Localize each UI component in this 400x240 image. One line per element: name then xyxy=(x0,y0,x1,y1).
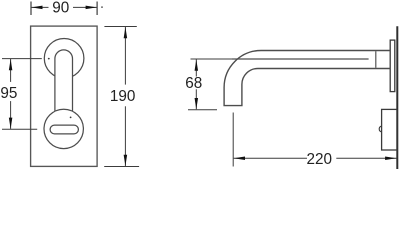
dim 68: bottom extension stub xyxy=(188,109,217,111)
dim 220: label xyxy=(307,153,336,166)
spout outline: top line + outer bend + outlet xyxy=(224,51,390,106)
wall plate rectangle xyxy=(31,26,98,166)
dim 90: right extension tick xyxy=(96,2,98,16)
dim 68: dimension line xyxy=(195,59,197,109)
mounting plate (side) xyxy=(390,40,395,92)
dim 190: dimension line xyxy=(124,27,126,166)
control box knob bump xyxy=(379,126,381,132)
outlet extension line down xyxy=(232,113,234,167)
svg-text:90: 90 xyxy=(52,0,69,17)
bottom sensor circle xyxy=(44,109,83,148)
dim 95: bottom arrow xyxy=(9,118,13,129)
sensor slot xyxy=(50,125,78,134)
dim 90: dimension line xyxy=(32,6,97,8)
svg-text:220: 220 xyxy=(307,151,333,168)
dim 220: right arrow xyxy=(385,156,396,160)
svg-text:95: 95 xyxy=(0,85,17,102)
dim 95: top extension line xyxy=(2,58,42,60)
dim 190: bottom extension line xyxy=(104,166,139,168)
dim 68: bottom arrow xyxy=(195,98,199,109)
dim 68: top extension line xyxy=(191,58,233,60)
dim 95: top arrow xyxy=(9,59,13,70)
dim 190: label xyxy=(109,85,137,107)
spout middle crease line (collinear with 68 extension) xyxy=(232,58,369,60)
top escutcheon circle xyxy=(44,39,84,79)
center dot bottom circle xyxy=(70,117,72,119)
dim 95: bottom extension line xyxy=(2,128,37,130)
dim 190: top arrow xyxy=(124,27,128,38)
dim 68: label xyxy=(185,77,203,90)
dim 190: top extension line xyxy=(104,26,136,28)
dim 220: dimension line xyxy=(234,157,397,159)
dim 95: label xyxy=(0,82,19,101)
spout end cap line xyxy=(375,51,377,68)
dim 68: top arrow xyxy=(195,60,199,71)
dim 220: left arrow xyxy=(234,156,245,160)
svg-text:68: 68 xyxy=(185,75,202,92)
stray dot right of 90 dim xyxy=(101,6,103,8)
dim 90: left arrow xyxy=(31,6,42,10)
svg-text:190: 190 xyxy=(110,88,136,105)
spout stem (vertical stadium) xyxy=(55,50,73,128)
dim 190: bottom arrow xyxy=(124,155,128,166)
wall line xyxy=(396,26,398,169)
dim 90: right arrow xyxy=(86,6,97,10)
dim 90: left extension tick xyxy=(30,2,32,16)
lower control box (side) xyxy=(382,109,397,150)
dim 90: label xyxy=(49,1,74,14)
dim 95: dimension line xyxy=(10,59,12,129)
center dot top circle xyxy=(48,58,50,60)
